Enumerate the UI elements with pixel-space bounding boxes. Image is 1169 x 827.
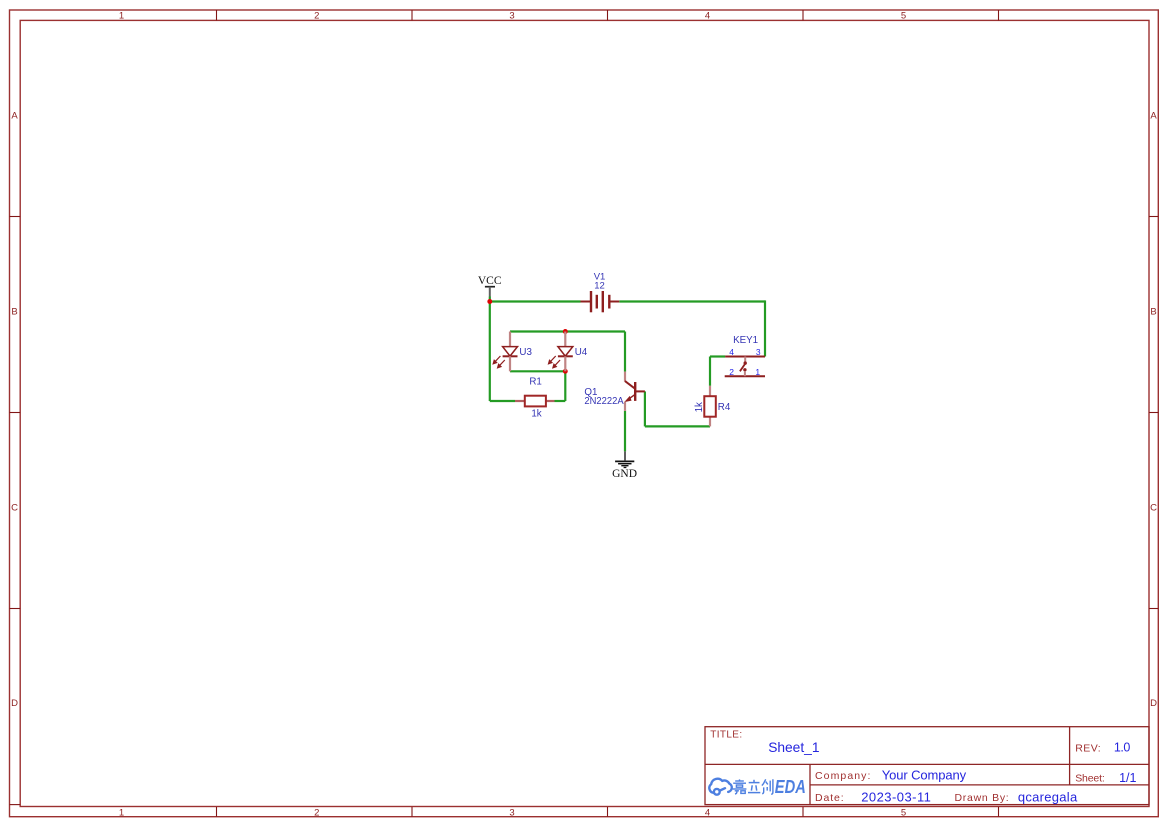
svg-text:Sheet:: Sheet: xyxy=(1075,773,1105,785)
svg-text:TITLE:: TITLE: xyxy=(710,730,742,741)
svg-text:B: B xyxy=(1150,307,1156,318)
svg-text:2023-03-11: 2023-03-11 xyxy=(861,790,931,805)
svg-text:GND: GND xyxy=(612,468,637,480)
svg-text:1.0: 1.0 xyxy=(1114,741,1130,755)
svg-text:U3: U3 xyxy=(519,347,532,358)
svg-text:4: 4 xyxy=(705,807,710,818)
svg-text:B: B xyxy=(11,307,17,318)
svg-text:3: 3 xyxy=(509,807,514,818)
svg-text:2: 2 xyxy=(314,807,319,818)
svg-text:U4: U4 xyxy=(575,347,588,358)
svg-text:D: D xyxy=(1150,698,1157,709)
svg-text:1/1: 1/1 xyxy=(1119,771,1136,785)
svg-text:4: 4 xyxy=(729,347,734,357)
svg-text:C: C xyxy=(1150,503,1157,514)
svg-text:1k: 1k xyxy=(531,409,541,420)
svg-text:3: 3 xyxy=(509,11,514,22)
svg-text:VCC: VCC xyxy=(478,275,502,287)
svg-text:5: 5 xyxy=(901,807,906,818)
svg-text:C: C xyxy=(11,503,18,514)
svg-text:R4: R4 xyxy=(718,402,731,413)
svg-text:EDA: EDA xyxy=(775,777,806,797)
svg-text:1: 1 xyxy=(119,11,124,22)
svg-text:R1: R1 xyxy=(529,377,542,388)
svg-text:1: 1 xyxy=(119,807,124,818)
svg-text:Your Company: Your Company xyxy=(882,767,967,782)
svg-text:3: 3 xyxy=(756,347,761,357)
svg-text:A: A xyxy=(11,111,18,122)
svg-text:Sheet_1: Sheet_1 xyxy=(768,740,819,755)
svg-text:2N2222A: 2N2222A xyxy=(584,396,624,407)
svg-text:2: 2 xyxy=(314,11,319,22)
svg-text:REV:: REV: xyxy=(1075,742,1101,754)
svg-text:A: A xyxy=(1150,111,1157,122)
svg-text:12: 12 xyxy=(594,281,605,292)
svg-text:D: D xyxy=(11,698,18,709)
svg-text:5: 5 xyxy=(901,11,906,22)
svg-text:qcaregala: qcaregala xyxy=(1018,790,1078,805)
svg-text:4: 4 xyxy=(705,11,710,22)
svg-text:KEY1: KEY1 xyxy=(733,335,758,346)
svg-text:Drawn By:: Drawn By: xyxy=(955,792,1009,804)
svg-text:1k: 1k xyxy=(694,402,705,412)
svg-text:Company:: Company: xyxy=(815,770,870,782)
svg-text:Date:: Date: xyxy=(815,792,844,804)
